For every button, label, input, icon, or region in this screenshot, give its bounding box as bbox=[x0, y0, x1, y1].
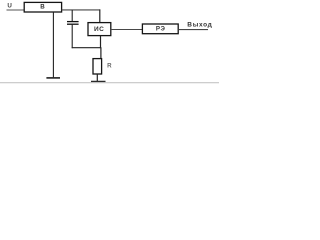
svg-text:U: U bbox=[7, 2, 12, 9]
svg-text:Выход: Выход bbox=[187, 22, 212, 29]
svg-text:R: R bbox=[107, 62, 112, 69]
svg-text:В: В bbox=[40, 4, 45, 11]
svg-text:ИС: ИС bbox=[94, 26, 104, 33]
svg-text:РЭ: РЭ bbox=[156, 26, 166, 33]
